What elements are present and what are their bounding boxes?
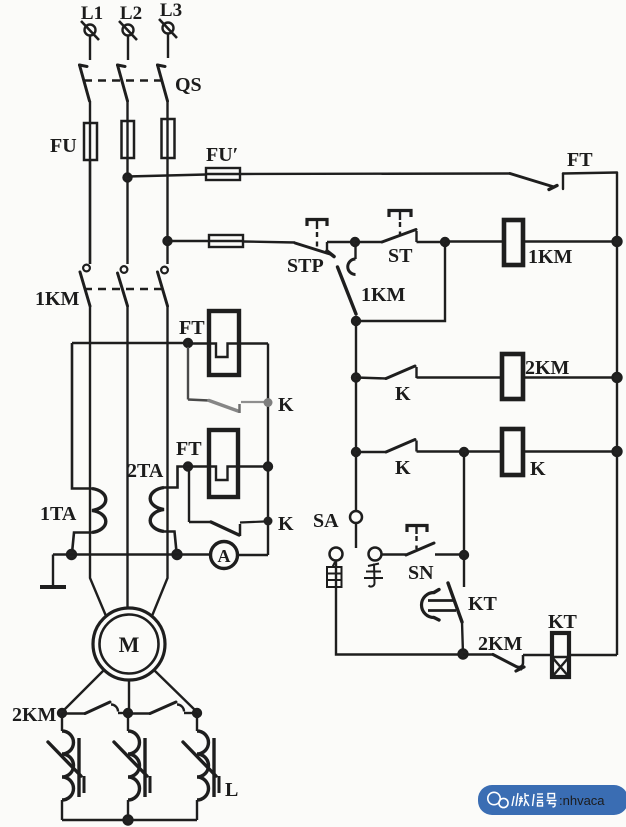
fuse FU' [206, 144, 240, 180]
svg-text:FU′: FU′ [206, 144, 238, 166]
svg-text:L2: L2 [120, 3, 142, 24]
auxiliary contact 1KM (self hold) [338, 246, 406, 314]
relay contact K row3 [356, 366, 417, 405]
node 2KM row left [58, 709, 66, 717]
ammeter A [211, 542, 238, 569]
wire motor lead left [62, 670, 104, 712]
terminal L3 [159, 0, 182, 38]
wire auto drop [336, 561, 463, 655]
wire L3 drop to QS [167, 34, 169, 59]
pushbutton STP (stop, NC) [287, 220, 351, 278]
switch QS pole 3 [158, 65, 168, 101]
svg-text:1KM: 1KM [361, 284, 406, 306]
wire TA right rail [267, 344, 269, 556]
svg-text:2KM: 2KM [525, 357, 570, 379]
node SN junction [460, 551, 468, 559]
wire tap to fuse2 [168, 240, 210, 242]
wire right rail [616, 173, 618, 656]
wire KT coil to right rail [569, 654, 617, 656]
wire L1 FU to 1KM [89, 160, 91, 264]
node bottom junction [459, 650, 468, 659]
node FT1 left [184, 339, 192, 347]
label auto (zi) [327, 562, 342, 587]
svg-text:1KM: 1KM [528, 246, 573, 268]
node STP/ST junction [351, 238, 359, 246]
wire FU' to FT contact [240, 172, 510, 175]
reactor L phase2 [114, 713, 150, 820]
node star point [124, 816, 133, 825]
reactor L phase3 [183, 713, 238, 820]
fuse FU phase2 [122, 121, 135, 158]
wechat banner [478, 785, 626, 815]
wire L2 QS to FU [126, 101, 128, 122]
svg-text:1KM: 1KM [35, 288, 80, 310]
relay contact K row4 [356, 440, 417, 480]
fuse FU phase3 [162, 119, 175, 158]
pushbutton ST (start, NO) [355, 211, 445, 268]
wire motor lead mid [128, 680, 130, 712]
QS linkage dashed [84, 79, 163, 81]
contactor main contact 1KM pole3 [158, 267, 168, 306]
wire row4 to coil [417, 450, 618, 452]
wire mid rail lower [463, 555, 465, 587]
thermal relay contact FT top right [510, 149, 617, 190]
svg-text:KT: KT [548, 611, 578, 633]
terminal L1 [81, 3, 103, 40]
contactor contact 2KM a [62, 702, 128, 714]
node L3 control tap [164, 237, 172, 245]
svg-text:L1: L1 [81, 3, 103, 24]
glyph wei [512, 796, 514, 806]
current transformer 1TA [40, 343, 106, 553]
svg-text:K: K [530, 458, 546, 480]
node FT2 right [264, 463, 272, 471]
node 2KM row mid [124, 709, 132, 717]
thermal element FT phase1 [179, 311, 268, 375]
wire secondary common [53, 553, 211, 555]
svg-text::nhvaca: :nhvaca [559, 793, 605, 808]
wire L2 FU down [126, 158, 128, 264]
svg-text:QS: QS [175, 74, 202, 96]
current transformer 2TA [127, 460, 188, 552]
terminal L2 [119, 3, 142, 40]
motor M [93, 608, 165, 680]
svg-text:K: K [278, 394, 294, 416]
ground [40, 555, 66, 588]
svg-text:L3: L3 [160, 0, 182, 21]
terminal auto [330, 548, 343, 561]
wire phase3 down to motor [152, 306, 168, 616]
svg-text:FT: FT [179, 317, 205, 339]
node 1TA ground [67, 550, 76, 559]
contact 2KM NC bottom [463, 633, 552, 671]
node row3 right [613, 373, 622, 382]
wire L2 drop to QS [127, 36, 129, 61]
fuse FU' lower [209, 235, 243, 247]
glyph hao [548, 794, 555, 799]
svg-text:1TA: 1TA [40, 503, 77, 525]
selector SA [313, 510, 362, 548]
node ST right junction [441, 238, 449, 246]
svg-text:FU: FU [50, 135, 77, 157]
svg-text:2KM: 2KM [12, 704, 57, 726]
wire self hold loop [356, 242, 445, 321]
svg-text:FT: FT [567, 149, 593, 171]
wire left rail [355, 321, 357, 511]
contactor main contact 1KM pole2 [118, 266, 128, 306]
fuse FU phase1 [84, 123, 97, 160]
node coil row right [613, 237, 622, 246]
wire FT1 feeder [72, 342, 188, 344]
svg-text:KT: KT [468, 593, 498, 615]
svg-text:FT: FT [176, 438, 202, 460]
wire L1 QS to FU [89, 101, 91, 124]
wire L3 FU down [166, 158, 168, 264]
node 2TA bottom [173, 550, 182, 559]
wire motor lead right [154, 670, 197, 712]
svg-text:A: A [218, 546, 231, 566]
wire L1 drop to QS [89, 36, 91, 61]
time relay coil KT [548, 611, 578, 677]
node row4 right [613, 447, 622, 456]
relay contact K shorting FT1 [188, 347, 294, 416]
switch QS pole 1 [80, 65, 90, 101]
contactor coil 2KM [502, 354, 570, 399]
wire phase1 down to motor [90, 306, 106, 616]
wire mid rail [463, 452, 465, 555]
node L2 control tap [124, 174, 132, 182]
svg-text:SA: SA [313, 510, 339, 532]
wire L3 QS to FU [166, 101, 168, 120]
node self hold bottom [352, 317, 360, 325]
terminal manual [369, 548, 382, 561]
svg-text:2TA: 2TA [127, 460, 164, 482]
glyph xin [533, 794, 535, 806]
node left rail row3 [352, 374, 360, 382]
wire tap to FU' [128, 175, 207, 177]
time contact KT [421, 583, 497, 654]
node row4 mid branch [460, 448, 468, 456]
thermal element FT phase3 [176, 430, 268, 497]
node left rail row4 [352, 448, 360, 456]
svg-text:2KM: 2KM [478, 633, 523, 655]
relay coil K [502, 429, 546, 480]
label manual (shou) [364, 564, 383, 587]
contactor coil 1KM [504, 220, 573, 268]
svg-text:K: K [395, 457, 411, 479]
reactor L phase1 [48, 713, 84, 820]
pushbutton SN [382, 526, 465, 585]
svg-text:ST: ST [388, 245, 413, 267]
wire star bus [62, 819, 197, 821]
svg-text:M: M [119, 632, 140, 657]
wire ST junction to 1KM coil [445, 240, 617, 242]
node 2KM row right [193, 709, 201, 717]
wire ammeter to rail [238, 554, 269, 556]
1KM linkage dashed [84, 288, 162, 290]
svg-text:K: K [278, 513, 294, 535]
svg-text:L: L [225, 779, 238, 801]
switch QS pole 2 [118, 65, 128, 101]
wire fuse2 to STP [243, 242, 295, 243]
wire row3 to coil [417, 376, 618, 378]
contactor contact 2KM b [128, 702, 197, 714]
contactor main contact 1KM pole1 [80, 160, 90, 306]
relay contact K shorting FT2 [189, 470, 294, 536]
svg-text:K: K [395, 383, 411, 405]
wire phase2 down to motor [126, 306, 128, 609]
svg-text:SN: SN [408, 562, 434, 584]
svg-text:STP: STP [287, 255, 324, 277]
